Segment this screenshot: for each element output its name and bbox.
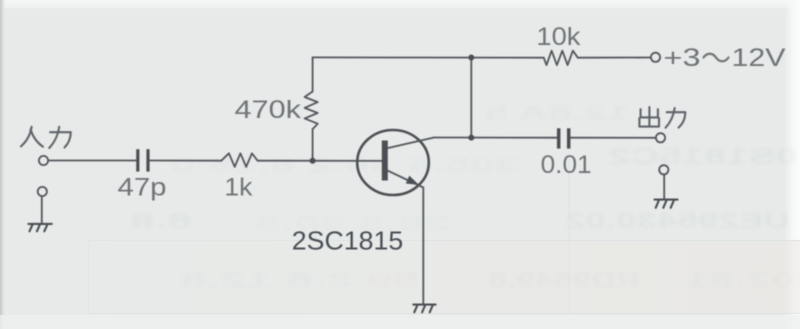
- svg-text:305.6 36.2 8.15 0: 305.6 36.2 8.15 0: [170, 154, 520, 177]
- svg-text:+3: +3: [664, 44, 701, 72]
- wire 10k to +V terminal: [578, 57, 651, 59]
- wire C1 to R 1k: [150, 160, 221, 162]
- svg-text:0.01: 0.01: [541, 151, 592, 179]
- input terminal (upper): [39, 156, 48, 165]
- +V terminal circle: [651, 53, 660, 62]
- resistor 10k: [544, 51, 578, 65]
- output ground lead: [663, 175, 665, 200]
- transistor Q1 collector lead: [387, 138, 434, 149]
- ground (emitter): [413, 305, 435, 313]
- transistor Q1 emitter lead: [387, 170, 423, 187]
- emitter wire down: [422, 188, 424, 305]
- transistor Q1 body circle: [357, 130, 429, 195]
- svg-text:12V: 12V: [732, 44, 786, 72]
- transistor Q1 base bar: [382, 141, 388, 181]
- wire rail drop to collector node: [470, 57, 472, 137]
- svg-text:470k: 470k: [235, 96, 302, 124]
- wire C2 to output: [571, 137, 656, 139]
- svg-text:UE295430.02: UE295430.02: [565, 208, 790, 233]
- svg-text:2SC1815: 2SC1815: [292, 228, 404, 256]
- capacitor 47p: [138, 149, 148, 171]
- wire collector row: [434, 137, 557, 139]
- bleed-through ghosts: [129, 103, 798, 292]
- resistor 470k (vertical): [305, 92, 318, 130]
- output terminal (upper): [656, 133, 665, 142]
- node: rail junction: [468, 55, 474, 61]
- input lower terminal: [38, 187, 47, 196]
- input ground lead: [41, 196, 43, 224]
- wire input to C1: [48, 160, 136, 162]
- ground (input): [28, 224, 51, 231]
- svg-text:12.8A 5: 12.8A 5: [485, 103, 630, 125]
- wire 470k to base node: [312, 129, 314, 161]
- resistor 1k: [221, 153, 258, 167]
- svg-text:1k: 1k: [224, 173, 253, 201]
- transistor Q1 emitter arrow: [407, 177, 418, 185]
- svg-text:8.8: 8.8: [129, 210, 192, 233]
- wire R 1k to base: [258, 160, 383, 162]
- label 入力 (input): [21, 127, 71, 148]
- ground (output): [655, 200, 678, 208]
- node: base junction: [310, 158, 316, 164]
- svg-text:0S1815C2: 0S1815C2: [608, 143, 798, 169]
- svg-text:47p: 47p: [118, 173, 167, 201]
- svg-text:10k: 10k: [536, 23, 581, 51]
- output lower terminal: [659, 165, 668, 174]
- node: collector junction: [468, 135, 474, 141]
- capacitor 0.01: [559, 128, 569, 148]
- label 出力 (output): [639, 107, 685, 128]
- top rail wire: [313, 56, 544, 58]
- wire 470k to top rail: [312, 57, 314, 91]
